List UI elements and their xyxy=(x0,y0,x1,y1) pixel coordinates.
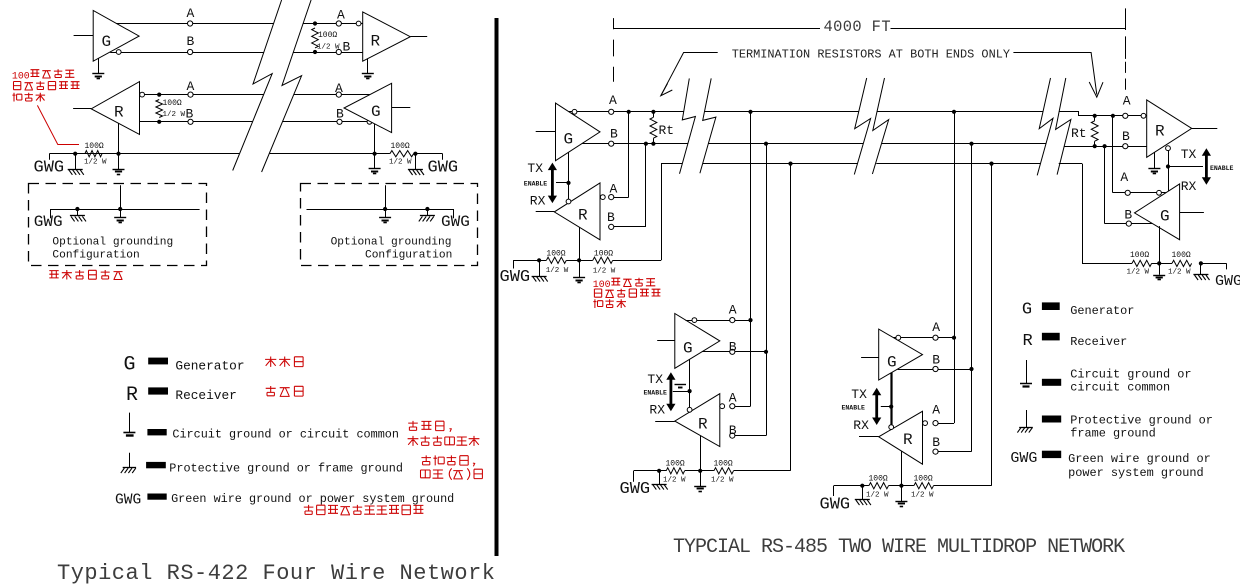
label 100 ohm station3 right xyxy=(914,475,933,484)
legend right protective ground text xyxy=(1070,414,1213,441)
label 100 ohm station1 right xyxy=(594,250,613,259)
svg-text:R: R xyxy=(578,207,588,225)
receiver R4 output stub xyxy=(655,421,675,423)
junction dot at GWG frame ground xyxy=(73,152,77,156)
legend right circuit ground wire sample xyxy=(1042,379,1061,386)
wire G4 A output xyxy=(686,320,751,322)
junction dot frame ground station1 xyxy=(537,258,541,262)
label B row1 left xyxy=(187,34,195,49)
protective ground station2 xyxy=(652,471,668,490)
node B terminal circle row1 right xyxy=(336,49,341,54)
wire A row1 (break to R1) xyxy=(303,23,363,25)
cable break 3 bolt left (RS-485) xyxy=(1037,78,1053,175)
node A terminal circle G4 xyxy=(730,318,735,323)
red note GWG xyxy=(304,505,424,515)
svg-text:A: A xyxy=(335,81,343,96)
input bubble R4 on A xyxy=(720,404,725,409)
ground bus stub to GWG right xyxy=(415,154,442,160)
ground bus hook left end xyxy=(49,154,51,160)
small circuit ground on enable station2 xyxy=(675,385,687,388)
receiver R3 (RS-485 left) xyxy=(554,183,600,240)
wire A row1 (G1 to break) xyxy=(116,23,273,25)
junction dot circuit ground station4 xyxy=(1157,261,1161,265)
wire in left dashed box xyxy=(50,209,199,218)
label B row1 right xyxy=(343,40,351,55)
svg-text:1/2 W: 1/2 W xyxy=(163,111,186,119)
node B terminal circle G6 xyxy=(1126,221,1131,226)
red note line2 xyxy=(14,81,80,90)
legend right protective ground symbol xyxy=(1017,410,1032,433)
svg-text:Green wire ground or power sys: Green wire ground or power system ground xyxy=(171,492,454,506)
wire G4 B output xyxy=(702,351,766,353)
generator G6 (RS-485 right) xyxy=(1135,184,1180,240)
red note circuit ground line2 xyxy=(408,436,480,446)
junction dot frame ground station2 xyxy=(657,469,661,473)
svg-text:TX: TX xyxy=(647,372,663,387)
svg-text:power system ground: power system ground xyxy=(1068,466,1204,480)
circuit ground station1 xyxy=(573,260,585,282)
legend right Receiver text xyxy=(1070,335,1127,349)
label 100 ohm station4 left xyxy=(1130,251,1149,260)
svg-text:G: G xyxy=(371,103,381,121)
termination resistor Rt right xyxy=(1091,116,1098,146)
red note 100-ohm (station1) line1 xyxy=(593,278,656,290)
node B terminal circle G4 xyxy=(730,349,735,354)
svg-text:A: A xyxy=(187,6,195,21)
svg-text:1/2 W: 1/2 W xyxy=(663,477,686,485)
label B G4 out xyxy=(729,340,737,355)
wire in right dashed box xyxy=(307,209,454,218)
cable break bolt left (RS-422) xyxy=(233,0,282,171)
legend right GWG text xyxy=(1068,452,1211,480)
node B terminal circle row1 left xyxy=(188,49,193,54)
label A row1 left xyxy=(187,6,195,21)
enable wire G5 to R5 (thick) xyxy=(890,373,892,425)
node A terminal circle R4 xyxy=(730,404,735,409)
generator G5 (station3) xyxy=(879,329,923,380)
output bubble G3 on A xyxy=(572,109,577,114)
dimension line 4000 FT xyxy=(613,28,1125,30)
legend right G symbol xyxy=(1022,301,1032,320)
junction dot bus B drop station3 xyxy=(969,142,973,146)
enable bubble R3 xyxy=(566,199,571,204)
svg-text:ENABLE: ENABLE xyxy=(842,405,866,412)
output bubble G5 on A xyxy=(896,335,901,340)
svg-text:Typical RS-422 Four Wire Netwo: Typical RS-422 Four Wire Network xyxy=(57,561,495,586)
text optional grounding right box xyxy=(331,236,453,261)
svg-text:R: R xyxy=(1023,332,1033,351)
junction dot common rail station2 xyxy=(788,162,792,166)
junction dot ground G2 xyxy=(373,152,377,156)
svg-text:TX: TX xyxy=(1181,147,1197,162)
node B terminal circle R4 xyxy=(730,433,735,438)
enable junction dot station2 xyxy=(688,389,692,393)
protective ground in right box xyxy=(419,209,435,221)
dimension extension line left (dashed) xyxy=(613,18,615,82)
svg-text:1/2 W: 1/2 W xyxy=(866,492,889,500)
node B terminal circle station1 xyxy=(609,141,614,146)
svg-text:B: B xyxy=(186,107,194,122)
svg-text:G: G xyxy=(1022,301,1032,320)
label Rt left xyxy=(659,123,675,138)
dashed box optional grounding left xyxy=(29,184,207,266)
junction dot bus B drop station2 xyxy=(764,142,768,146)
bus wire B middle section 1 xyxy=(709,143,864,145)
svg-text:TYPCIAL RS-485 TWO WIRE MULTID: TYPCIAL RS-485 TWO WIRE MULTIDROP NETWOR… xyxy=(673,536,1125,559)
ground wire station2 xyxy=(634,471,667,482)
label 100 ohm station2 left xyxy=(666,459,685,468)
legend G symbol xyxy=(124,354,136,377)
cable break 1 bolt left (RS-485) xyxy=(680,78,696,173)
receiver R6 (RS-485 right) xyxy=(1147,100,1192,157)
svg-text:100Ω: 100Ω xyxy=(594,250,613,259)
label GWG in right box xyxy=(441,213,470,231)
label 1/2 W row2 xyxy=(163,111,186,119)
circuit ground station4 xyxy=(1153,263,1165,279)
label B G6 out xyxy=(1124,208,1132,223)
ground wire below G1 xyxy=(98,58,100,73)
svg-text:A: A xyxy=(610,181,618,196)
svg-text:R: R xyxy=(126,384,138,407)
node B terminal circle R5 xyxy=(933,449,938,454)
resistor 100 ohm right station2 xyxy=(714,468,734,474)
svg-text:Protective ground or: Protective ground or xyxy=(1070,414,1213,428)
divider line between halves xyxy=(495,18,499,556)
inverting output bubble G2 xyxy=(367,119,372,124)
junction dot circuit ground right box xyxy=(383,207,387,211)
label 100 ohm station3 left xyxy=(869,475,888,484)
enable tick to arrow station3 xyxy=(881,406,891,408)
svg-text:R: R xyxy=(371,33,381,51)
svg-text:ENABLE: ENABLE xyxy=(1210,165,1234,172)
svg-text:Configuration: Configuration xyxy=(365,250,452,262)
junction dot A drop station4 xyxy=(1111,114,1115,118)
label 1/2 W station4 right xyxy=(1168,268,1191,276)
cable break 3 bolt right (RS-485) xyxy=(1056,78,1071,175)
protective ground at GWG left xyxy=(68,154,84,175)
node B terminal circle row2 left xyxy=(188,119,193,124)
label 1/2 W ground-left xyxy=(84,159,107,167)
legend G wire sample xyxy=(148,358,168,365)
label A station1 out xyxy=(609,93,617,108)
legend protective ground wire sample xyxy=(146,462,166,468)
title RS-485 network xyxy=(673,536,1125,559)
wire between resistors station2 xyxy=(685,470,714,472)
ground wire right end hook station4 xyxy=(1201,263,1227,269)
generator G2 input stub xyxy=(392,107,411,109)
junction dot B drop station4 xyxy=(1103,144,1107,148)
svg-text:A: A xyxy=(932,402,940,417)
label B G5 out xyxy=(932,353,940,368)
svg-text:circuit common: circuit common xyxy=(1070,381,1170,395)
enable junction dot station3 xyxy=(889,405,893,409)
label A R4 in xyxy=(729,391,737,406)
resistor 100 ohm left station3 xyxy=(869,483,889,489)
input bubble R3 on A xyxy=(600,195,605,200)
legend right GWG symbol xyxy=(1010,450,1037,467)
input bubble R2 xyxy=(140,92,145,97)
svg-text:GWG: GWG xyxy=(820,496,851,515)
legend right R wire sample xyxy=(1042,333,1060,341)
svg-text:R: R xyxy=(698,416,708,434)
receiver R3 B input drop xyxy=(611,144,646,227)
label 100 ohm ground-left xyxy=(85,142,104,151)
svg-text:B: B xyxy=(932,435,940,450)
label GWG station4 xyxy=(1215,273,1240,290)
bus wire A middle section 2 xyxy=(877,111,1043,113)
enable tick to arrow station2 xyxy=(673,391,690,393)
svg-text:1/2 W: 1/2 W xyxy=(84,159,107,167)
svg-text:Circuit ground or circuit comm: Circuit ground or circuit common xyxy=(172,428,399,442)
TX/RX enable arrow station1 xyxy=(548,163,557,204)
label 100 ohm row1 xyxy=(318,31,337,40)
resistor 100 ohm left station1 xyxy=(546,257,566,263)
junction dot common rail station3 xyxy=(989,162,993,166)
svg-text:G: G xyxy=(564,131,574,149)
resistor 100 ohm right station3 xyxy=(914,483,934,489)
label 1/2 W station3 left xyxy=(866,492,889,500)
TX label station4 xyxy=(1181,147,1197,162)
legend R symbol xyxy=(126,384,138,407)
red note optional grounding config xyxy=(49,270,122,280)
ground wire to common rail station3 xyxy=(934,164,992,486)
protective ground station4 xyxy=(1193,263,1209,280)
legend circuit ground symbol xyxy=(123,413,135,436)
svg-text:Protective ground or frame gro: Protective ground or frame ground xyxy=(169,462,403,476)
bus wire B right section xyxy=(1064,146,1147,148)
red note 100-ohm resistor limits ground current (top-left) line1 xyxy=(12,69,75,81)
circuit ground below G1 xyxy=(92,74,104,79)
receiver R3 output stub xyxy=(536,211,555,213)
junction dot frame ground station3 xyxy=(860,484,864,488)
circuit ground in right box xyxy=(379,209,391,223)
node A terminal circle row2 left xyxy=(188,92,193,97)
title RS-422 network xyxy=(57,561,495,586)
dashed box optional grounding right xyxy=(301,184,478,266)
label termination resistors note xyxy=(732,48,1010,62)
svg-text:G: G xyxy=(102,33,112,51)
legend GWG text xyxy=(171,492,454,506)
svg-text:A: A xyxy=(187,79,195,94)
red note line3 xyxy=(12,93,45,102)
svg-text:B: B xyxy=(607,210,615,225)
svg-text:A: A xyxy=(609,93,617,108)
ground wire below R2 xyxy=(118,123,120,154)
node B terminal circle R6 xyxy=(1123,144,1128,149)
svg-text:Circuit ground or: Circuit ground or xyxy=(1070,368,1191,382)
svg-text:1/2 W: 1/2 W xyxy=(593,267,616,275)
ground bus wire right of break xyxy=(270,153,390,155)
red note protective ground line1 xyxy=(421,455,474,466)
legend right GWG wire sample xyxy=(1042,451,1061,458)
circuit ground station2 xyxy=(694,471,706,492)
red note (station1) line2 xyxy=(594,289,660,298)
svg-text:1/2 W: 1/2 W xyxy=(1127,268,1150,276)
node B terminal circle R3 xyxy=(609,224,614,229)
svg-text:TX: TX xyxy=(527,161,543,176)
label 100 ohm row2 xyxy=(163,99,182,108)
wire bus A from G3 to break 1 xyxy=(569,111,684,113)
svg-text:100Ω: 100Ω xyxy=(666,459,685,468)
wire between resistors station4 xyxy=(1152,263,1172,265)
junction dot frame ground left box xyxy=(75,207,79,211)
generator G3 (RS-485 left) xyxy=(556,103,601,161)
junction dot B output station2 xyxy=(764,350,768,354)
label 100 ohm station4 right xyxy=(1172,251,1191,260)
svg-text:B: B xyxy=(610,127,618,142)
input bubble R6 on A xyxy=(1141,113,1146,118)
generator G1 (RS-422 top-left) xyxy=(93,11,139,62)
wire G5 B output xyxy=(898,369,972,371)
enable tick to arrow station1 xyxy=(556,182,569,184)
label A G4 out xyxy=(729,303,737,318)
junction dot frame ground right box xyxy=(425,207,429,211)
label 100 ohm ground-right xyxy=(391,142,410,151)
drop wire A to G6 output xyxy=(1113,116,1166,193)
junction dot circuit ground station2 xyxy=(698,469,702,473)
junction dot circuit ground R2 xyxy=(116,152,120,156)
junction dot bus A drop station2 xyxy=(748,110,752,114)
label B R6 in xyxy=(1122,129,1130,144)
svg-text:G: G xyxy=(124,354,136,377)
legend Receiver text xyxy=(175,388,236,403)
red note protective ground line2 xyxy=(421,468,483,479)
svg-text:TERMINATION RESISTORS AT BOTH: TERMINATION RESISTORS AT BOTH ENDS ONLY xyxy=(732,48,1010,62)
resistor 100 ohm left station2 xyxy=(666,468,684,474)
ground wire common rail drop station4 xyxy=(1082,164,1084,264)
legend right R symbol xyxy=(1023,332,1033,351)
label B R3 in xyxy=(607,210,615,225)
enable bubble R5 xyxy=(889,425,894,430)
TX label station2 xyxy=(647,372,663,387)
label A G6 out xyxy=(1120,170,1128,185)
label A G5 out xyxy=(932,320,940,335)
red note receiver xyxy=(266,386,303,396)
svg-text:B: B xyxy=(1124,208,1132,223)
junction dot A row2 at termination resistor xyxy=(157,93,161,97)
svg-text:Generator: Generator xyxy=(1070,304,1134,318)
red note (station1) line3 xyxy=(593,299,626,308)
wire R5 bottom to ground xyxy=(901,451,903,486)
junction dot circuit ground left box xyxy=(118,207,122,211)
receiver R1 output stub xyxy=(410,36,427,38)
RX label station4 xyxy=(1181,179,1197,194)
svg-text:G: G xyxy=(683,340,693,358)
svg-text:G: G xyxy=(887,354,897,372)
svg-text:100Ω: 100Ω xyxy=(318,31,337,40)
svg-text:GWG: GWG xyxy=(428,159,459,178)
label 100 ohm station2 right xyxy=(714,459,733,468)
svg-text:A: A xyxy=(729,303,737,318)
label 1/2 W station1 right xyxy=(593,267,616,275)
leader line left to Rt xyxy=(661,53,718,96)
receiver R4 (station2) xyxy=(675,394,720,447)
wire B row1 (break to R1) xyxy=(293,52,363,54)
label GWG station2 xyxy=(620,480,651,499)
junction dot circuit ground station3 xyxy=(899,484,903,488)
enable junction dot station1 xyxy=(566,181,570,185)
junction dot A output station3 xyxy=(952,336,956,340)
circuit ground below G2 ground dot xyxy=(369,154,381,174)
receiver R2 output stub (row2 left) xyxy=(73,108,91,110)
receiver R1 (RS-422 top-right) xyxy=(363,12,411,61)
enable wire R6 to G6 xyxy=(1168,151,1170,192)
legend Generator text xyxy=(175,359,244,374)
legend right circuit ground symbol xyxy=(1020,360,1032,387)
svg-text:RX: RX xyxy=(530,193,546,208)
receiver R3 A input drop xyxy=(611,112,629,198)
TX label station1 xyxy=(527,161,543,176)
wire G5 A output xyxy=(894,337,954,339)
legend right Generator text xyxy=(1070,304,1134,318)
svg-text:1/2 W: 1/2 W xyxy=(1168,268,1191,276)
junction dot A row1 at termination resistor xyxy=(313,21,317,25)
generator G2 (RS-422 row2 right) xyxy=(344,83,392,132)
wire R4 bottom to ground xyxy=(700,436,702,471)
label 1/2 W station1 left xyxy=(546,267,569,275)
drop wire A station2 xyxy=(732,112,750,407)
ENABLE label station2 xyxy=(644,390,668,397)
svg-text:R: R xyxy=(903,431,913,449)
resistor 100 ohm right station4 xyxy=(1172,260,1192,266)
ground wire station3 xyxy=(834,486,869,497)
termination resistor 100 ohm row2 xyxy=(156,100,163,118)
circuit ground below R6 xyxy=(1148,153,1160,174)
svg-text:Green wire ground or: Green wire ground or xyxy=(1068,452,1211,466)
svg-text:Rt: Rt xyxy=(659,123,675,138)
label Rt right xyxy=(1071,126,1087,141)
TX label station3 xyxy=(851,387,867,402)
enable tick to arrow station4 xyxy=(1168,166,1203,168)
svg-text:GWG: GWG xyxy=(500,268,531,287)
svg-text:100Ω: 100Ω xyxy=(1130,251,1149,260)
junction dot B at Rt left xyxy=(651,142,655,146)
cable break 2 bolt left (RS-485 middle) xyxy=(854,78,870,175)
drop wire B station3 xyxy=(936,144,972,452)
label GWG row2 right xyxy=(428,159,459,178)
node A terminal circle row1 left xyxy=(188,21,193,26)
svg-text:RX: RX xyxy=(1181,179,1197,194)
label GWG left xyxy=(34,159,65,178)
red leader line to 100 ohm resistor xyxy=(37,105,79,144)
svg-text:100Ω: 100Ω xyxy=(163,99,182,108)
junction dot at GWG frame ground right xyxy=(413,152,417,156)
svg-text:Receiver: Receiver xyxy=(175,388,236,403)
TX/RX enable arrow station4 xyxy=(1202,148,1211,185)
label A R5 in xyxy=(932,402,940,417)
generator G1 input stub wire xyxy=(74,35,94,37)
legend circuit ground wire sample xyxy=(147,429,166,435)
generator G6 input stub xyxy=(1180,212,1204,214)
wire R3 bottom to ground xyxy=(579,227,581,260)
receiver R6 output stub xyxy=(1192,128,1218,130)
legend GWG wire sample xyxy=(147,494,166,500)
node B terminal circle G5 xyxy=(933,366,938,371)
enable wire G3 to R3 xyxy=(568,152,570,199)
bus wire A middle section 1 xyxy=(704,111,858,113)
label GWG station3 xyxy=(820,496,851,515)
circuit ground below R1 xyxy=(362,74,374,79)
label B station1 out xyxy=(610,127,618,142)
cable break 2 bolt right (RS-485 middle) xyxy=(872,78,888,174)
circuit ground below ground bus left xyxy=(113,154,125,175)
arrowhead right leader xyxy=(1089,82,1103,97)
node A terminal circle station1 xyxy=(609,109,614,114)
svg-text:GWG: GWG xyxy=(1215,273,1240,290)
protective ground in left box xyxy=(70,209,86,221)
svg-text:Optional grounding: Optional grounding xyxy=(331,236,452,248)
protective ground at GWG right xyxy=(408,154,424,175)
